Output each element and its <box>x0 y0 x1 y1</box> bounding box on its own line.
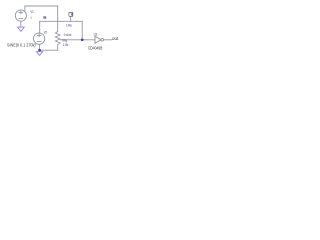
resistor GridLeak (zigzag) <box>55 32 60 45</box>
wire main vertical to resistor <box>57 6 59 32</box>
wire mid rail <box>40 20 82 22</box>
wire V2 bottom stub <box>39 44 41 50</box>
node junction dot (inverter input) <box>81 38 84 41</box>
svg-text:GridLeak: GridLeak <box>64 33 72 37</box>
svg-text:U1: U1 <box>94 31 98 36</box>
wire mini component stub <box>70 16 72 21</box>
wire inverter input <box>61 39 95 41</box>
node junction dot (V2 ground net) <box>38 49 41 52</box>
wire right vertical <box>81 21 83 40</box>
svg-text:out: out <box>112 36 119 41</box>
wire V2 top stub <box>39 21 41 33</box>
wire inverter output <box>104 39 112 41</box>
wire resistor bottom lead <box>57 45 59 51</box>
svg-text:10k: 10k <box>63 43 69 47</box>
inverter U1 triangle <box>95 36 101 43</box>
wire top rail <box>25 5 58 7</box>
voltage source V1 <box>15 10 26 21</box>
svg-text:1Meg: 1Meg <box>62 38 67 42</box>
tiny marker near V2 riser <box>43 16 46 18</box>
wire V1 top riser <box>24 6 26 12</box>
wire V1 bottom stub <box>20 21 22 26</box>
svg-text:SINE(0 0.1 270k): SINE(0 0.1 270k) <box>7 42 36 47</box>
svg-text:1Me: 1Me <box>66 24 72 28</box>
mini component icon on mid rail <box>69 12 73 16</box>
voltage source V2 <box>33 33 44 44</box>
svg-text:V1: V1 <box>30 9 34 14</box>
wire bottom rail <box>40 49 58 51</box>
ground (V1) <box>18 27 25 31</box>
ground (V2 / bottom rail) <box>36 52 42 56</box>
svg-text:V2: V2 <box>44 29 48 34</box>
svg-text:CD4049B: CD4049B <box>88 45 102 50</box>
svg-text:5: 5 <box>30 16 32 20</box>
inverter U1 bubble <box>101 38 104 41</box>
